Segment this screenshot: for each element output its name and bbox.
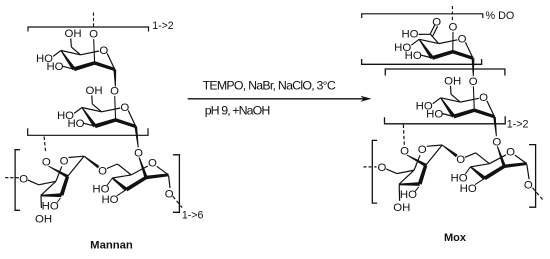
ring C2 bond C5-O5 [414,155,420,170]
dashed bond ring D2 O1 - bracket [533,188,543,200]
ring A2 bold bond C2-C1 [452,50,473,60]
ring D2 bond C1-O1 [527,164,529,179]
ring D bond HO-C3 [117,190,127,196]
ring C2 bond C6-C5 [397,170,414,174]
right 1->6 repeat bracket (left) [372,140,377,203]
svg-text:HO: HO [46,61,63,73]
ring C bold bond C3-C2 [60,176,70,196]
ring C bond C6-C5 [39,181,56,185]
ring D bold bond C2-C1 [146,173,169,179]
left dashed bond to O2 of ring A [93,13,95,28]
svg-text:HO: HO [405,50,422,62]
ring D bond HO-C4 [107,178,112,185]
ring A bold bond C3-C2 [73,61,95,71]
dashed bond bracket - O2 of ring C2 [402,125,405,145]
ring B bold bond C3-C2 [94,118,116,128]
bond ring B C1 - O2 of ring D [135,126,139,147]
ring B2 bond C4-C5 [441,98,461,102]
right backbone dashed bond [363,166,376,168]
ring B2 wedge C4-C3 [440,98,455,118]
ring C2 wedge O2-C2 [407,155,427,167]
ring A2 wedge C4-C3 [419,39,434,59]
ring B bond C4-C5 [82,108,102,112]
svg-text:O: O [99,45,108,57]
svg-text:O: O [377,162,386,174]
svg-text:1->6: 1->6 [182,210,204,222]
svg-text:O: O [148,158,157,170]
ring A bond C4-C5 [61,51,81,55]
ring C2 bold bond C3-C2 [418,165,428,185]
ring B2 bond C6-C5 [451,94,460,102]
svg-text:O: O [524,180,533,192]
svg-text:O: O [479,92,488,104]
svg-text:OH: OH [444,75,461,87]
svg-text:O: O [456,154,465,166]
svg-text:O: O [492,136,501,148]
svg-text:O: O [506,147,515,159]
ring C bond C1-C2 [68,156,85,176]
ring D2 bond C4-C5 [471,164,490,167]
ring B bond HO-C3 [83,123,95,126]
ring A bold bond C2-C1 [94,61,115,71]
ring A2 bond Ccarb-C5 [431,34,439,43]
ring B bold bond C2-C1 [115,118,136,128]
ring B2 bond O2-C2 [472,86,475,110]
svg-text:O: O [110,86,119,98]
svg-text:OH: OH [85,85,102,97]
svg-text:HO: HO [67,118,84,130]
svg-text:HO: HO [101,194,118,206]
ring D wedge O2-C2 [139,157,148,178]
svg-text:O: O [469,76,478,88]
reaction arrow [188,96,372,102]
ring A wedge C4-C3 [61,50,76,70]
svg-text:% DO: % DO [486,10,515,22]
ring C bond C5-C4 [41,181,56,195]
ring C2 bond C1-C2 [426,145,443,165]
svg-text:O: O [418,144,427,156]
ring B2 bond C5-O5 [460,98,479,102]
ring A2 bond C4-C5 [419,39,439,43]
svg-text:OH: OH [35,213,52,225]
ring D2 bond O5-C1 [515,155,527,164]
svg-text:O: O [165,188,174,200]
ring A bond OH-C6 [70,39,73,47]
ring B wedge C4-C3 [82,107,97,127]
wedge ring C C1 - glycosidic O (1->6) [84,156,100,169]
ring D2 wedge C4-C3 [470,166,486,180]
ring A bond C5-O5 [81,51,100,55]
ring D bold bond C3-C2 [125,176,147,191]
svg-text:O: O [120,102,129,114]
bond ring A C1 - glycosidic O (1->2) [113,70,116,87]
ring A2 bond O2-C2 [452,32,454,52]
svg-text:Mox: Mox [444,232,467,244]
left 1->6 repeat bracket (left) [15,150,20,211]
svg-text:TEMPO, NaBr, NaClO, 3°C: TEMPO, NaBr, NaClO, 3°C [203,78,336,92]
ring C bond O-C6 [28,180,39,185]
svg-text:1->2: 1->2 [507,119,529,131]
ring B2 bond O5-C1 [487,101,495,117]
ring C bond HO-C3 [57,198,61,203]
svg-text:O: O [448,21,457,33]
ring C2 wedge C4-C3 [399,182,420,186]
ring D2 wedge O2-C2 [497,146,506,167]
ring A bond C6-C5 [71,47,80,55]
ring D wedge C4-C3 [112,177,128,191]
ring C bond C4-OH [40,196,42,208]
svg-text:HO: HO [400,189,417,201]
right dashed bond to O2 of ring A2 [451,6,453,21]
ring B2 bold bond C3-C2 [453,109,475,119]
ring C wedge O2-C2 [48,166,68,178]
ring C2 bond O-C6 [386,169,397,174]
ring A bond O5-C1 [107,53,115,69]
ring D bond C1-O1 [169,176,170,189]
ring D2 bond C5-O5 [489,155,506,164]
ring B2 bond HO-C4 [433,98,441,104]
left backbone dashed bond [5,177,19,179]
ring A2 bond O5-C1 [465,42,473,58]
ring B2 bold bond C2-C1 [474,109,495,119]
ring C bond O5-C1 [69,156,85,157]
left 1->2 repeat bracket (top) [28,27,149,32]
ring B2 bond OH-C6 [450,86,453,94]
svg-text:HO: HO [426,108,443,120]
ring B bond O5-C1 [128,110,136,126]
bond ring B2 C1 - O2 of ring D2 [493,117,497,137]
right 1->2 repeat bracket (bottom) [385,116,506,124]
ring D2 bold bond C3-C2 [484,165,506,180]
svg-text:OH: OH [64,28,81,40]
ring A2 bond HO-C4 [411,39,419,45]
ring B bond O2-C2 [114,96,117,120]
ring B bond OH-C6 [91,96,94,104]
ring D bond C4-C5 [112,175,131,178]
svg-text:1->2: 1->2 [152,20,174,32]
svg-text:O: O [19,173,28,185]
ring B bond C5-O5 [102,108,121,112]
ring C2 bond C4-OH [398,185,400,201]
ring D bond O5-C1 [157,166,169,175]
ring A bond O2-C2 [93,39,96,63]
svg-text:OH: OH [393,202,410,214]
ring D2 bond C6-C5 [476,153,490,164]
ring C2 bond C5-C4 [399,170,414,184]
svg-text:HO: HO [401,29,418,41]
svg-text:HO: HO [42,200,59,212]
left 1->2 repeat bracket (bottom) [28,128,148,135]
ring C2 bond O5-C1 [427,145,443,146]
dashed bond bracket - O2 of ring C [44,137,46,153]
ring D bond C5-O5 [131,166,148,175]
ring A2 bond HO-Ccarb [419,33,431,35]
ring C2 bond HO-C3 [415,187,419,192]
ring D bond C6-C5 [118,164,132,175]
right % DO bracket (top) [362,14,483,18]
ring A2 bond HO-C3 [421,55,433,58]
wedge ring C2 C1 - glycosidic O (1->6) [442,145,458,158]
svg-text:O: O [134,148,143,160]
svg-text:O: O [89,29,98,41]
ring D bond O-C6 [107,164,118,169]
svg-text:O: O [458,34,467,46]
ring C wedge C4-C3 [41,193,62,197]
dashed bond ring D O1 - bracket [173,196,182,207]
ring B2 bond HO-C3 [442,114,454,117]
svg-text:O: O [98,165,107,177]
ring A2 C=O double bond [430,25,438,36]
ring D2 bond O-C6 [465,153,476,158]
left 1->6 repeat bracket (right) [173,155,180,213]
ring D2 bold bond C2-C1 [504,162,527,168]
ring A2 bond C5-O5 [439,40,458,44]
ring D2 bond HO-C3 [475,178,485,184]
ring A bond HO-C3 [62,66,74,69]
right 1->2 repeat bracket (top) [385,69,505,76]
right 1->6 repeat bracket (right) [529,145,536,208]
bond ring A2 C1 - glycosidic O [472,58,475,76]
ring C bond C5-O5 [56,167,62,182]
svg-text:HO: HO [460,183,477,195]
right % DO repeat bracket (bottom) [362,59,482,64]
ring A2 bold bond C3-C2 [432,50,454,60]
ring A bond HO-C4 [53,51,61,57]
ring B bond C6-C5 [92,104,101,112]
svg-text:Mannan: Mannan [90,240,133,252]
svg-text:pH 9, +NaOH: pH 9, +NaOH [205,104,271,118]
svg-text:O: O [60,155,69,167]
ring B bond HO-C4 [74,108,82,114]
ring D2 bond HO-C4 [465,167,470,174]
